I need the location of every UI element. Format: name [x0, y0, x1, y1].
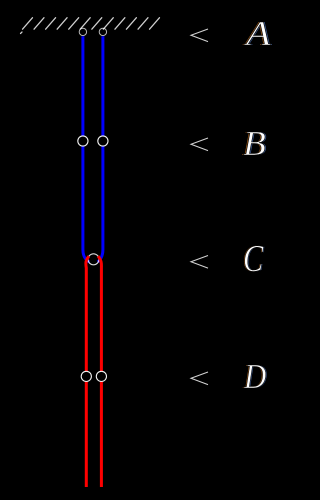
label D [244, 359, 266, 394]
arrow at B [191, 138, 208, 151]
hook ring left [79, 28, 86, 35]
arrow at A [191, 29, 208, 42]
red string left [86, 256, 89, 487]
blue string left [83, 36, 89, 262]
bead B left [78, 136, 88, 146]
label C [243, 240, 263, 278]
arrow at D [191, 372, 208, 385]
bead D left [81, 371, 91, 381]
blue string right [98, 36, 103, 262]
red string right [98, 256, 101, 487]
bead D right [96, 371, 106, 381]
connecting ring C [88, 254, 99, 265]
bead B right [98, 136, 108, 146]
label B [243, 126, 266, 161]
ceiling hatching [21, 18, 160, 34]
label A [246, 16, 271, 51]
arrow at C [191, 256, 208, 269]
hook ring right [99, 28, 106, 35]
